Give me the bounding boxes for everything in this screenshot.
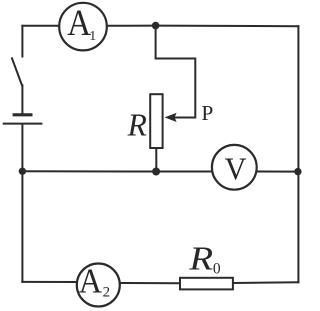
node right junction [294, 168, 301, 175]
svg-text:P: P [201, 101, 213, 125]
svg-text:0: 0 [213, 261, 221, 278]
svg-text:A: A [67, 2, 91, 43]
rheostat wiper arrowhead [165, 113, 177, 122]
node left junction [19, 168, 26, 175]
wire right edge lower (right node to bottom-right corner) [297, 172, 299, 283]
wire R0 to bottom-right corner [233, 281, 299, 284]
resistor R0 body [180, 278, 233, 290]
voltmeter V circle [212, 145, 257, 190]
svg-text:2: 2 [103, 285, 111, 301]
wire left node down to bottom-left corner [21, 171, 23, 282]
wire voltmeter to right node [257, 171, 298, 173]
battery long thin plate [3, 123, 43, 125]
svg-text:A: A [79, 262, 103, 301]
svg-text:1: 1 [89, 29, 96, 44]
wire rheostat bottom lead [155, 148, 157, 172]
wire right edge upper (top-right corner to right node) [297, 26, 299, 171]
rheostat R body [150, 94, 162, 148]
wire top-left corner to A1 [22, 25, 58, 27]
svg-text:R: R [127, 108, 147, 143]
switch S (open blade) [12, 58, 22, 85]
wire middle: left node to rheostat bottom node [22, 170, 156, 172]
svg-text:V: V [225, 151, 247, 187]
wire switch to battery [21, 85, 23, 113]
wire bottom-left corner to A2 [22, 281, 76, 283]
ammeter A2 circle [77, 264, 120, 307]
node top junction [152, 22, 160, 30]
wire battery to left node [21, 125, 23, 172]
node rheostat bottom junction [152, 168, 160, 176]
wire top junction to top-right corner [156, 25, 299, 28]
wire wiper arm from top junction (down, right, down) [156, 26, 196, 118]
wire top-left corner down to switch [21, 26, 23, 57]
wire rheostat bottom node to voltmeter [156, 171, 211, 173]
wire A1 to top junction [108, 25, 156, 27]
wire A2 to R0 [121, 282, 180, 284]
battery (short thick plate) [13, 113, 33, 116]
svg-text:R: R [188, 240, 213, 277]
ammeter A1 circle [59, 3, 107, 51]
